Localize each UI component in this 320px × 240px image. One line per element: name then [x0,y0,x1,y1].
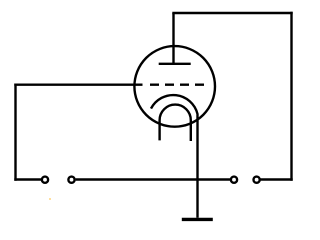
terminal T2 (left pair, right) [68,177,74,183]
terminal T3 (right pair, left) [231,177,237,183]
control grid (dashed) [150,83,204,85]
terminal T1 (left pair, left) [42,177,48,183]
ground [182,218,213,221]
cathode arc with lead to ground [151,95,198,218]
terminal T4 (right pair, right) [254,177,260,183]
anode lead wire [172,13,174,65]
wire bottom middle rail [76,178,231,180]
wire top horizontal [172,12,292,14]
wire left-bottom to terminal [14,178,41,180]
grid wire left horizontal [14,83,142,85]
wire right vertical [290,12,292,181]
heater filament [160,105,191,141]
wire left vertical [14,84,16,181]
tube envelope V1 [134,46,215,127]
wire right-bottom to terminal [260,178,292,180]
anode (plate) bar [159,63,191,65]
faint scan speck [49,198,51,200]
